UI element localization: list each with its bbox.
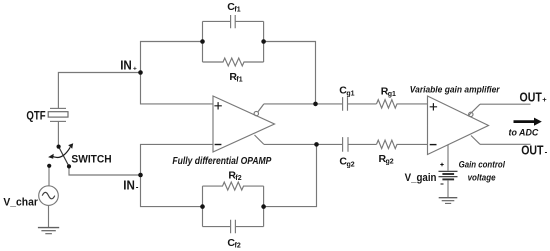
crystal QTF [48, 108, 68, 121]
op-amp U1 plus sign [214, 102, 221, 109]
ground under V_char [38, 228, 59, 234]
battery plus sign [440, 163, 443, 166]
node IN- junction dot [138, 173, 143, 178]
svg-text:to ADC: to ADC [509, 128, 539, 139]
wire VGA top output stub [468, 104, 480, 116]
battery V_gain [439, 171, 458, 179]
svg-text:g1: g1 [346, 91, 354, 98]
node top feedback right dot [261, 39, 266, 44]
svg-text:-: - [136, 182, 139, 191]
svg-text:SWITCH: SWITCH [71, 153, 111, 165]
output bubble on VGA top output [469, 112, 473, 116]
wire IN+ node riser up to feedback network [141, 42, 203, 73]
wire OUT+ line [480, 103, 531, 105]
svg-text:QTF: QTF [26, 108, 45, 122]
wire right edge of bottom feedback box [263, 186, 265, 227]
resistor R_f1 [203, 58, 264, 66]
op-amp U2 minus sign [430, 144, 437, 146]
wire opamp top output stub [258, 104, 264, 112]
wire battery to ground [447, 180, 449, 198]
node top feedback left dot [200, 39, 205, 44]
switch arrowhead right [68, 143, 73, 149]
node switch right throw dot [67, 164, 71, 168]
switch arrowhead left [48, 154, 54, 159]
wire feedback box to top output rail [264, 42, 316, 104]
capacitor C_f1 [203, 15, 264, 28]
capacitor C_g2 [343, 137, 348, 152]
wire QTF to switch pole [57, 121, 59, 146]
svg-text:Gain control: Gain control [459, 160, 506, 171]
wire top signal rail with C_g1 and R_g1 [264, 103, 377, 105]
wire left edge of top feedback box [202, 21, 204, 62]
resistor R_g1 [377, 100, 428, 108]
wire bottom feedback box to bottom output rail [264, 144, 317, 206]
svg-text:Fully differential OPAMP: Fully differential OPAMP [172, 156, 271, 167]
wire VGA gain pin down to battery [447, 145, 449, 171]
node switch pole dot [57, 145, 61, 149]
bottom feedback network box (Rf2 / Cf2) [203, 182, 264, 233]
resistor R_g2 [377, 140, 428, 148]
wire OUT- line [480, 143, 531, 145]
svg-text:-: - [545, 147, 548, 156]
node IN+ junction dot [138, 70, 143, 75]
op-amp U1 minus sign [215, 144, 222, 146]
wire IN- node riser up to opamp - input [141, 144, 214, 175]
node switch left throw dot [47, 164, 51, 168]
AC source V_char [39, 186, 59, 206]
svg-text:V_char: V_char [3, 197, 38, 209]
svg-text:f2: f2 [235, 243, 241, 250]
wire VGA bottom output stub [471, 136, 480, 145]
node bottom feedback right dot [261, 204, 266, 209]
svg-text:IN: IN [123, 179, 135, 193]
wire right edge of top feedback box [263, 21, 265, 62]
wire opamp bottom output stub [255, 135, 264, 144]
wire IN+ node down to opamp + input [141, 73, 214, 104]
svg-text:Variable gain amplifier: Variable gain amplifier [410, 84, 500, 94]
op-amp U2 plus sign [430, 103, 437, 110]
output bubble on opamp top output [254, 111, 258, 115]
wire bottom signal rail with C_g2 and R_g2 [264, 143, 377, 145]
svg-text:+: + [133, 65, 137, 72]
wire V_char to ground [48, 205, 50, 227]
battery minus sign [441, 183, 444, 185]
svg-text:f1: f1 [234, 7, 240, 14]
to ADC arrow [514, 118, 542, 126]
capacitor C_g1 [343, 97, 348, 111]
svg-text:OUT: OUT [520, 90, 543, 104]
svg-text:IN: IN [120, 59, 132, 73]
svg-text:g1: g1 [388, 91, 396, 98]
switch toggle arc arrow [52, 147, 71, 157]
svg-text:g2: g2 [386, 159, 394, 166]
resistor R_f2 [203, 182, 264, 190]
svg-text:+: + [542, 95, 547, 104]
svg-text:voltage: voltage [468, 173, 497, 184]
node bottom feedback left dot [200, 204, 205, 209]
svg-text:V_gain: V_gain [405, 172, 437, 184]
node bottom rail junction dot [314, 142, 319, 147]
svg-text:g2: g2 [347, 162, 355, 169]
node top rail junction dot [313, 102, 318, 107]
wire IN+ horizontal from QTF branch to IN+ node [58, 73, 140, 109]
wire switch left throw to V_char [48, 166, 50, 186]
switch SPDT blade [59, 147, 69, 167]
svg-text:f1: f1 [236, 77, 242, 84]
wire left edge of bottom feedback box [202, 186, 204, 227]
op-amp U2 variable gain amplifier triangle [428, 96, 489, 155]
wire switch right throw to IN- node [69, 166, 141, 175]
capacitor C_f2 [203, 220, 264, 234]
top feedback network box (Cf1 / Rf1) [203, 15, 264, 66]
wire IN- node down to bottom feedback network [141, 175, 203, 207]
ground under battery [439, 198, 458, 204]
op-amp U1 fully differential opamp triangle [213, 96, 275, 152]
svg-text:OUT: OUT [521, 144, 544, 158]
svg-text:f2: f2 [235, 175, 241, 182]
